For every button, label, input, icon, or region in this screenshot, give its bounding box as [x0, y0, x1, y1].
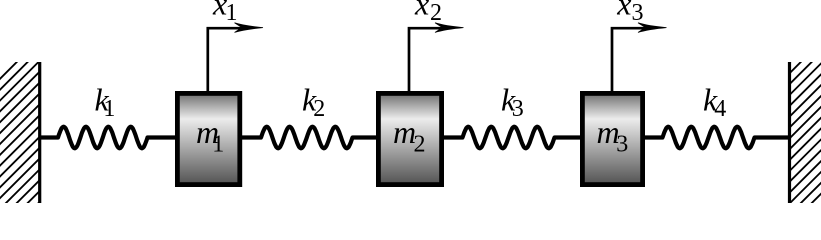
label k3 — [501, 81, 524, 121]
svg-text:2: 2 — [414, 132, 426, 158]
mass m2 — [378, 93, 441, 184]
spring k1 — [39, 127, 177, 149]
svg-text:x: x — [616, 0, 631, 22]
right wall — [786, 4, 821, 229]
svg-text:3: 3 — [616, 132, 628, 158]
coordinate arrow x2 — [409, 23, 464, 93]
spring k4 — [643, 127, 790, 149]
svg-text:3: 3 — [512, 96, 524, 122]
svg-text:1: 1 — [103, 96, 115, 122]
label x1 — [212, 0, 238, 26]
mass m1 — [177, 93, 239, 184]
svg-text:x: x — [414, 0, 429, 22]
label k1 — [95, 81, 116, 121]
mass m3 — [582, 93, 642, 184]
label m2 — [393, 114, 426, 158]
label k4 — [703, 81, 726, 121]
left wall — [0, 34, 45, 240]
spring k3 — [442, 127, 582, 149]
coordinate arrow x1 — [208, 23, 263, 93]
svg-text:2: 2 — [313, 96, 325, 122]
label m1 — [196, 114, 224, 158]
label x3 — [616, 0, 643, 26]
svg-text:3: 3 — [632, 0, 644, 26]
coordinate arrow x3 — [612, 23, 667, 93]
svg-text:1: 1 — [212, 132, 224, 158]
label x2 — [414, 0, 442, 26]
spring k2 — [242, 127, 378, 149]
label m3 — [597, 114, 629, 158]
svg-text:1: 1 — [226, 0, 238, 26]
label k2 — [302, 81, 325, 121]
svg-text:2: 2 — [430, 0, 442, 26]
svg-text:4: 4 — [714, 96, 726, 122]
